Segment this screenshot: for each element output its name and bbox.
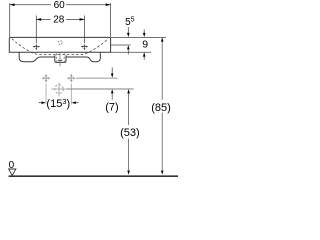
dim (15.3): extension line left (grey): [45, 84, 47, 105]
dim 60: dimension line: [10, 4, 111, 6]
drain (dashed circle with centre cross, grey): [55, 85, 64, 94]
ext line rim-top right (A): [111, 36, 166, 38]
svg-text:9: 9: [142, 38, 148, 50]
fixing hole cross right (grey): [67, 74, 75, 82]
dim (7): lower arrow (up): [111, 93, 113, 100]
svg-text:(53): (53): [120, 127, 140, 139]
fixing hole cross left (grey): [42, 74, 50, 82]
drain level line to dims 7/53: [67, 88, 134, 90]
dim (15.3): right arrow: [76, 102, 79, 104]
svg-text:28: 28: [53, 14, 65, 25]
basin underside right (bottom + leg): [66, 52, 100, 61]
basin underside left (leg + bottom): [19, 52, 55, 61]
svg-text:(153): (153): [46, 97, 70, 110]
dim 60: arrowhead right: [106, 3, 111, 6]
floor line: [9, 175, 178, 177]
dim 28: arrowhead right: [80, 18, 85, 21]
trap hidden pipe dashed edges: [57, 53, 64, 62]
dim 28: dimension line: [36, 18, 84, 20]
dim 5.5: lower arrow (up): [127, 50, 129, 55]
svg-text:60: 60: [54, 0, 66, 11]
dim (15.3): extension line right (grey): [70, 84, 72, 105]
datum triangle: [9, 169, 16, 176]
dim (7): upper arrow (down): [111, 67, 113, 73]
fixing level line to dim 7: [76, 77, 117, 79]
washbasin rim (front view outline): [9, 37, 110, 52]
siphon/trap box: [55, 55, 66, 62]
ext line rim-bottom right (C): [111, 51, 151, 53]
svg-text:(7): (7): [105, 101, 118, 113]
dim 5.5: upper arrow (down): [127, 27, 129, 33]
dim 28: extension line left: [35, 16, 37, 44]
drain centre mark: [58, 60, 63, 62]
dim 60: extension line left: [9, 3, 11, 37]
dim (53): line with up arrow at drain level, down arrow at floor: [128, 93, 130, 171]
tap hole cross right: [81, 45, 88, 50]
dim 60: arrowhead left: [10, 3, 15, 6]
dim 60: extension line right: [110, 3, 112, 37]
dim (85): line with up arrow at rim top, down arrow at floor: [161, 41, 163, 171]
svg-text:(85): (85): [151, 102, 171, 114]
dim (15.3): left arrow: [39, 102, 42, 104]
tap hole cross left: [33, 45, 40, 50]
dim 28: arrowhead left: [36, 18, 41, 21]
trap centerline: [59, 52, 61, 67]
overflow hole (dashed circle): [58, 41, 62, 45]
ext line tap-level right (B): [111, 44, 131, 46]
dim 9: upper arrow (down): [143, 30, 145, 34]
dim 9: lower arrow (up): [143, 57, 145, 60]
hidden bowl contour (dashed): [12, 39, 108, 55]
dim 28: extension line right: [84, 16, 86, 44]
